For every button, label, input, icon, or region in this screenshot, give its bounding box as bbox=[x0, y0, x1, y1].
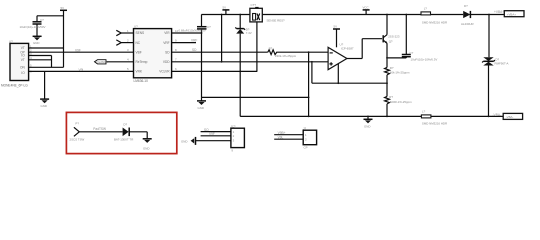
wire U2 pin6 to sense box bottom bbox=[172, 70, 258, 72]
sideways ground (connector J1 pin3) bbox=[181, 137, 196, 145]
svg-text:AL430UR: AL430UR bbox=[461, 22, 474, 26]
resistor R? (emitter lower) bbox=[385, 95, 413, 104]
svg-text:R?: R? bbox=[269, 47, 273, 51]
svg-text:JC?: JC? bbox=[230, 124, 236, 128]
wire U2 pin8 east (net SD) bbox=[172, 51, 268, 53]
svg-text:SD: SD bbox=[165, 50, 170, 54]
svg-text:V9B+: V9B+ bbox=[278, 131, 286, 135]
svg-text:V9L: V9L bbox=[79, 68, 85, 72]
svg-text:GND: GND bbox=[364, 124, 370, 128]
svg-text:+VBA+: +VBA+ bbox=[507, 12, 516, 16]
diode D? (in red box) bbox=[114, 122, 133, 141]
capacitor C3 bbox=[402, 15, 438, 62]
svg-text:500R-1%-25ppm: 500R-1%-25ppm bbox=[390, 100, 412, 104]
ground wire from C2 node bbox=[202, 96, 309, 98]
wire pin2 to U2 VBF (net VBF) bbox=[29, 51, 134, 53]
wire pin4 stub bbox=[29, 59, 52, 61]
wire vertical x221.6 rail to opamp+ row bbox=[221, 15, 223, 62]
port arrow P? (in red box) bbox=[70, 121, 85, 141]
svg-text:ICP-6S87: ICP-6S87 bbox=[341, 46, 354, 50]
power VCC on rail bbox=[363, 6, 370, 15]
svg-text:VCC: VCC bbox=[363, 6, 369, 10]
svg-text:BAT-130XT TR: BAT-130XT TR bbox=[114, 137, 133, 141]
ground (under C1) bbox=[33, 36, 42, 45]
svg-text:V9L: V9L bbox=[278, 135, 284, 139]
wire J1 pin1, net SO bbox=[201, 128, 231, 132]
svg-text:VIR: VIR bbox=[164, 31, 170, 35]
svg-text:LM636-10: LM636-10 bbox=[134, 79, 149, 83]
svg-text:SENS: SENS bbox=[136, 31, 145, 35]
svg-text:2SCS TSW: 2SCS TSW bbox=[70, 138, 85, 142]
svg-text:VDD: VDD bbox=[163, 60, 170, 64]
wire J2 pin2, net VBL bbox=[274, 135, 303, 139]
wire pin6 to ground bbox=[29, 70, 134, 72]
svg-text:GND: GND bbox=[198, 106, 204, 110]
svg-text:NC: NC bbox=[136, 41, 141, 45]
svg-text:5V: 5V bbox=[61, 6, 65, 10]
svg-text:SMD NM3216 HDR: SMD NM3216 HDR bbox=[422, 20, 447, 24]
svg-text:Q?: Q? bbox=[389, 39, 393, 43]
wire lower resistor to gnd bus bbox=[386, 104, 388, 117]
svg-text:220k-1%-25ppm: 220k-1%-25ppm bbox=[275, 54, 297, 58]
svg-text:R?: R? bbox=[390, 66, 394, 70]
svg-text:C?: C? bbox=[40, 18, 44, 22]
IC U1 (left connector/IC) bbox=[1, 39, 29, 87]
svg-text:D?: D? bbox=[464, 4, 468, 8]
U2 right pin numbers bbox=[175, 29, 179, 71]
power 5V (top-left) bbox=[60, 6, 67, 16]
svg-text:U?: U? bbox=[9, 39, 13, 43]
wire U2 pin9 stub, net VRF bbox=[172, 42, 196, 44]
svg-text:10uF/(10)+10%/50V: 10uF/(10)+10%/50V bbox=[20, 25, 46, 29]
svg-text:GND: GND bbox=[143, 146, 149, 150]
ground (bus, x368) bbox=[364, 116, 373, 128]
op-amp output wire to transistor base bbox=[347, 39, 382, 59]
wire J1 pin2, net VRF bbox=[201, 132, 231, 136]
svg-text:2SS-223: 2SS-223 bbox=[388, 34, 400, 38]
svg-text:J?: J? bbox=[303, 126, 306, 130]
svg-text:GND: GND bbox=[33, 41, 39, 45]
svg-text:+VBA+: +VBA+ bbox=[494, 10, 504, 14]
svg-text:VBF: VBF bbox=[136, 50, 142, 54]
svg-text:5V: 5V bbox=[334, 25, 338, 29]
svg-text:5V: 5V bbox=[223, 6, 227, 10]
ground (red box) bbox=[143, 139, 152, 151]
capacitor C2 bbox=[179, 15, 212, 98]
ferrite bead L? (gnd bus) bbox=[421, 110, 447, 126]
diode D? (series, top right) bbox=[461, 4, 474, 26]
svg-text:-VBA-: -VBA- bbox=[493, 113, 502, 117]
svg-text:VRK: VRK bbox=[136, 70, 143, 74]
svg-text:10uF/(10)+10%/6.3V: 10uF/(10)+10%/6.3V bbox=[411, 58, 438, 62]
net port +VBAT (top right) bbox=[494, 10, 524, 17]
svg-text:PadTSW: PadTSW bbox=[93, 127, 106, 131]
red highlight box bbox=[66, 112, 176, 153]
capacitor C1 bbox=[20, 16, 46, 36]
svg-text:PadShift: PadShift bbox=[97, 60, 108, 64]
top rail segment 1 bbox=[201, 14, 250, 16]
svg-text:P?: P? bbox=[75, 121, 79, 125]
top rail segment 3 bbox=[431, 14, 464, 16]
U2 pin2 input arrow bbox=[116, 38, 133, 45]
wire J1 pin3 to sideways ground bbox=[196, 140, 231, 142]
transistor Q? bbox=[383, 34, 400, 43]
left IC pin numbers bbox=[30, 44, 32, 73]
svg-text:RMF90T-A: RMF90T-A bbox=[495, 61, 509, 65]
svg-text:SD: SD bbox=[192, 48, 197, 52]
wire collector to rail bbox=[386, 15, 388, 35]
svg-text:40k-1%-25ppm: 40k-1%-25ppm bbox=[390, 71, 410, 75]
resistor R? (horizontal, net SD) bbox=[268, 47, 328, 58]
svg-text:GND: GND bbox=[181, 140, 187, 144]
wire 5V rail to C1 bbox=[37, 15, 64, 17]
svg-text:VT: VT bbox=[21, 58, 25, 62]
wire vertical x51.5 bbox=[51, 56, 53, 68]
wire pin1 to 5V bbox=[29, 47, 64, 49]
svg-text:SENSE RES?: SENSE RES? bbox=[267, 18, 286, 22]
svg-text:L?: L? bbox=[422, 110, 426, 114]
wire diode to ground corner bbox=[129, 132, 147, 139]
port PadShift bbox=[95, 58, 134, 65]
wire emitter down bbox=[386, 43, 388, 67]
svg-text:7.4V: 7.4V bbox=[246, 31, 252, 35]
IC U2 (main regulator) bbox=[134, 25, 172, 83]
wire port to diode, net PadShift bbox=[79, 127, 122, 132]
power 5V (mid rail) bbox=[222, 6, 229, 15]
svg-text:GND: GND bbox=[41, 104, 47, 108]
svg-text:VRF: VRF bbox=[163, 41, 169, 45]
svg-text:IO: IO bbox=[21, 71, 25, 75]
wire J2 pin1, net VBB+ bbox=[274, 131, 303, 135]
svg-text:0.68uF/(10)/X5R/50V: 0.68uF/(10)/X5R/50V bbox=[179, 28, 206, 32]
U2 pin1 input arrow bbox=[116, 29, 133, 36]
top rail segment 4 bbox=[471, 14, 504, 16]
svg-text:ReTemp: ReTemp bbox=[136, 60, 148, 64]
connector J2 bbox=[303, 126, 317, 149]
junction dots on top rail bbox=[221, 14, 223, 16]
wire sense box bottom pin down bbox=[256, 22, 258, 72]
svg-text:-VBA-: -VBA- bbox=[506, 115, 514, 119]
svg-text:U?: U? bbox=[134, 25, 138, 29]
wire pin3 stub bbox=[29, 55, 52, 57]
svg-text:VRF: VRF bbox=[191, 38, 197, 42]
wire between resistors bbox=[386, 75, 388, 97]
wire vertical x311.9 (plus tap) bbox=[311, 62, 313, 83]
ground (left IC) bbox=[40, 99, 49, 108]
op-amp U3 bbox=[328, 43, 354, 70]
svg-text:CP: CP bbox=[304, 146, 308, 150]
net port -VBAT (bottom right) bbox=[493, 113, 523, 120]
resistor R? (emitter upper) bbox=[385, 66, 410, 75]
svg-text:MONE4NE_6P-LG: MONE4NE_6P-LG bbox=[1, 84, 28, 88]
wire U2 pin10 to C2 node bbox=[172, 32, 202, 34]
wire vertical x308.6 (minus net to gnd bus) bbox=[308, 52, 310, 116]
svg-text:V9F: V9F bbox=[75, 49, 81, 53]
wire C3 bottom to emitter node bbox=[387, 57, 406, 59]
svg-text:ON: ON bbox=[20, 66, 25, 70]
ferrite bead L? (top rail) bbox=[421, 7, 447, 25]
wire vertical 5V feed x63.5 bbox=[63, 16, 65, 68]
svg-text:C?: C? bbox=[207, 25, 211, 29]
ground (center) bbox=[197, 97, 206, 110]
svg-text:R?: R? bbox=[389, 95, 393, 99]
top rail segment 2 bbox=[262, 14, 421, 16]
svg-text:SMD NM3216 HDR: SMD NM3216 HDR bbox=[422, 122, 447, 126]
wire pin5 bbox=[29, 66, 64, 68]
current sense element Q? bbox=[250, 3, 285, 22]
wire rail junction to TVS bbox=[488, 15, 490, 58]
svg-text:D?: D? bbox=[123, 122, 127, 126]
svg-text:VCLVR: VCLVR bbox=[159, 70, 170, 74]
wire U2 pin7 to op-amp plus input bbox=[172, 61, 329, 63]
zener diode D1 bbox=[235, 15, 251, 117]
TVS diode D? bbox=[482, 57, 508, 116]
svg-text:V9F: V9F bbox=[209, 132, 215, 136]
ground bus y116.4 bbox=[240, 115, 503, 117]
svg-text:C?: C? bbox=[410, 51, 414, 55]
op-amp V- pin down bbox=[337, 64, 339, 83]
wire sense line y83.2 bbox=[312, 82, 387, 84]
svg-text:L?: L? bbox=[424, 7, 428, 11]
connector J1 bbox=[230, 124, 244, 152]
op-amp V+ pin to 5V bar bbox=[333, 25, 340, 48]
svg-text:CT?: CT? bbox=[251, 3, 257, 7]
